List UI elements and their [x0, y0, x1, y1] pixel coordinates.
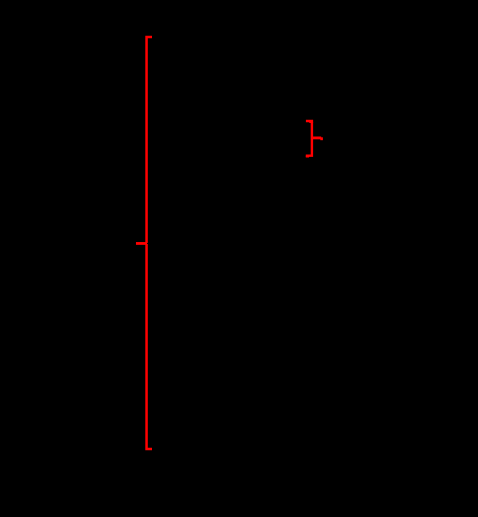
brace right bottom-bar step	[306, 156, 309, 158]
brace left junction notch	[146, 243, 149, 244]
brace left middle tick	[136, 242, 147, 245]
brace left (large red curly bracket, hooks right, point left)	[136, 37, 152, 449]
brace right middle tick	[312, 136, 321, 139]
brace right top-bar step	[309, 122, 313, 123]
brace right (small red curly bracket, hooks left, point right)	[306, 121, 321, 156]
brace right tick tip step	[320, 137, 323, 140]
